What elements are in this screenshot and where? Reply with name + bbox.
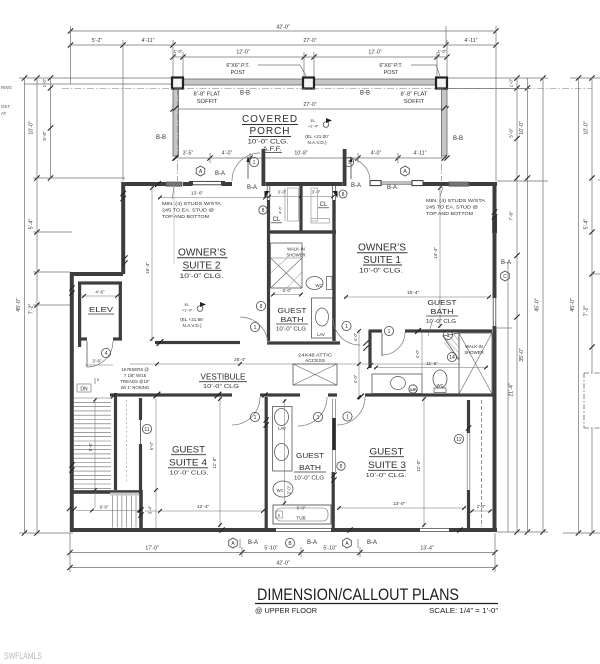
svg-text:4’-0”: 4’-0” xyxy=(222,151,233,157)
svg-text:B-A: B-A xyxy=(215,171,225,177)
svg-text:27’-0”: 27’-0” xyxy=(303,102,317,108)
svg-text:(EL +21.00’: (EL +21.00’ xyxy=(305,134,328,139)
svg-text:ELEV: ELEV xyxy=(89,307,113,314)
svg-text:8’-6”: 8’-6” xyxy=(88,442,93,451)
svg-text:TUB: TUB xyxy=(296,516,305,521)
svg-text:DIMENSION/CALLOUT PLANS: DIMENSION/CALLOUT PLANS xyxy=(257,586,459,604)
svg-text:1: 1 xyxy=(254,325,257,331)
svg-text:W/ 1” NOSING: W/ 1” NOSING xyxy=(121,385,150,390)
svg-text:WC: WC xyxy=(437,383,444,388)
svg-text:4’-0”: 4’-0” xyxy=(415,349,420,358)
svg-text:2’-0”: 2’-0” xyxy=(287,485,292,494)
svg-text:WALK-IN: WALK-IN xyxy=(465,344,483,349)
svg-text:SUITE 1: SUITE 1 xyxy=(363,254,401,266)
svg-text:B-B: B-B xyxy=(240,91,250,97)
svg-text:24X48 ATTIC: 24X48 ATTIC xyxy=(298,353,333,358)
svg-text:GUEST: GUEST xyxy=(370,447,404,458)
svg-text:14’-4”: 14’-4” xyxy=(433,247,438,259)
svg-text:2’-0”: 2’-0” xyxy=(477,504,486,509)
svg-text:POST: POST xyxy=(384,70,399,76)
svg-text:1’-0”: 1’-0” xyxy=(509,78,514,87)
svg-text:SUITE 2: SUITE 2 xyxy=(183,260,221,272)
svg-text:POST: POST xyxy=(231,70,246,76)
svg-text:SCALE: 1/4” = 1’-0”: SCALE: 1/4” = 1’-0” xyxy=(429,606,499,615)
svg-text:25’-4”: 25’-4” xyxy=(234,357,246,362)
svg-text:21’-4”: 21’-4” xyxy=(509,383,515,397)
svg-text:245 TO EA. STUD @: 245 TO EA. STUD @ xyxy=(426,205,478,211)
svg-text:10’-0” CLG.: 10’-0” CLG. xyxy=(366,473,408,479)
svg-text:13’-0”: 13’-0” xyxy=(393,501,406,507)
svg-text:6’-0”: 6’-0” xyxy=(100,505,109,510)
svg-text:14: 14 xyxy=(449,355,455,361)
svg-text:15 RISERS @: 15 RISERS @ xyxy=(121,367,149,372)
svg-text:17’-0”: 17’-0” xyxy=(145,546,159,552)
svg-text:N.A.V.D.): N.A.V.D.) xyxy=(308,140,327,145)
svg-text:A.F.F.: A.F.F. xyxy=(263,147,282,153)
svg-text:10’-0” CLG.: 10’-0” CLG. xyxy=(248,140,289,146)
svg-text:10’-0”: 10’-0” xyxy=(584,121,590,135)
svg-text:MIN. (4) STUDS W/STA: MIN. (4) STUDS W/STA xyxy=(162,201,222,207)
svg-text:B-B: B-B xyxy=(156,135,166,141)
svg-text:5’-0”: 5’-0” xyxy=(509,128,514,138)
svg-text:B-A: B-A xyxy=(501,260,511,266)
svg-text:6’-0”: 6’-0” xyxy=(149,441,154,450)
svg-text:4’-0”: 4’-0” xyxy=(353,332,358,341)
svg-text:B-B: B-B xyxy=(360,91,370,97)
svg-text:EL: EL xyxy=(311,118,317,123)
svg-text:1: 1 xyxy=(388,329,391,335)
svg-text:RING: RING xyxy=(1,85,13,90)
svg-text:245 TO EA. STUD @: 245 TO EA. STUD @ xyxy=(162,208,214,214)
svg-text:TREADS @10”: TREADS @10” xyxy=(120,379,150,384)
svg-text:10’-8”: 10’-8” xyxy=(294,151,308,157)
svg-text:13’-6”: 13’-6” xyxy=(191,191,204,197)
svg-text:1: 1 xyxy=(254,415,257,421)
svg-text:OWNER’S: OWNER’S xyxy=(178,247,226,259)
svg-text:8’-8” FLAT: 8’-8” FLAT xyxy=(401,92,428,98)
svg-text:GUEST: GUEST xyxy=(172,445,205,456)
svg-text:CL: CL xyxy=(273,217,281,223)
svg-text:6’-0”: 6’-0” xyxy=(297,506,306,511)
svg-text:7’-2”: 7’-2” xyxy=(584,306,590,317)
svg-text:6”X6” P.T.: 6”X6” P.T. xyxy=(379,63,402,69)
svg-text:1: 1 xyxy=(346,414,349,420)
svg-text:42’-0”: 42’-0” xyxy=(276,25,290,31)
svg-text:10’-0” CLG.: 10’-0” CLG. xyxy=(180,274,224,280)
svg-text:1: 1 xyxy=(317,415,320,421)
svg-text:3’-6”: 3’-6” xyxy=(92,359,102,364)
svg-text:4’-11”: 4’-11” xyxy=(465,38,478,44)
svg-text:10’-0” CLG: 10’-0” CLG xyxy=(294,476,324,482)
svg-text:4’-11”: 4’-11” xyxy=(414,151,427,157)
svg-text:8: 8 xyxy=(262,208,265,214)
svg-text:1’-0”: 1’-0” xyxy=(174,49,183,54)
svg-text:C: C xyxy=(503,274,507,280)
svg-text:DN: DN xyxy=(80,387,88,393)
svg-text:ACCESS: ACCESS xyxy=(305,358,325,363)
svg-text:SOFFIT: SOFFIT xyxy=(404,99,425,105)
svg-text:4’-0”: 4’-0” xyxy=(353,374,358,383)
svg-text:SHOWER: SHOWER xyxy=(286,253,305,258)
svg-text:5’-2”: 5’-2” xyxy=(92,38,103,44)
svg-text:12’-4”: 12’-4” xyxy=(197,504,210,510)
svg-text:12’-0”: 12’-0” xyxy=(236,50,250,56)
svg-text:7 1/8” W/15: 7 1/8” W/15 xyxy=(124,373,147,378)
svg-text:5’-10”: 5’-10” xyxy=(264,546,278,552)
svg-text:10’-0” CLG.: 10’-0” CLG. xyxy=(170,471,209,477)
svg-text:4’-0”: 4’-0” xyxy=(371,151,382,157)
svg-text:1’-0”: 1’-0” xyxy=(42,78,47,87)
svg-text:GUEST: GUEST xyxy=(296,453,325,460)
svg-text:35’-0”: 35’-0” xyxy=(519,348,525,362)
svg-text:10’-0”: 10’-0” xyxy=(29,121,35,135)
svg-text:11’-8”: 11’-8” xyxy=(426,361,438,366)
svg-text:B-A: B-A xyxy=(351,183,361,189)
svg-text:1’-0”: 1’-0” xyxy=(438,49,447,54)
svg-text:B-A: B-A xyxy=(367,540,377,546)
svg-text:1: 1 xyxy=(348,160,351,166)
svg-text:3’-0”: 3’-0” xyxy=(312,190,321,195)
svg-text:COVERED: COVERED xyxy=(242,113,298,125)
svg-text:OWNER’S: OWNER’S xyxy=(358,242,406,254)
svg-text:SOFFIT: SOFFIT xyxy=(197,99,218,105)
svg-text:10’-0”: 10’-0” xyxy=(519,121,525,135)
svg-text:6”X6” P.T.: 6”X6” P.T. xyxy=(226,63,249,69)
svg-text:10: 10 xyxy=(411,387,416,392)
svg-text:1: 1 xyxy=(447,333,450,339)
svg-text:1: 1 xyxy=(345,324,348,330)
svg-text:10’-0” CLG.: 10’-0” CLG. xyxy=(359,269,403,275)
svg-text:MIN. (4) STUDS W/STA: MIN. (4) STUDS W/STA xyxy=(426,198,486,204)
svg-text:4’-11”: 4’-11” xyxy=(142,38,155,44)
svg-text:OST: OST xyxy=(1,104,10,109)
svg-text:6: 6 xyxy=(278,514,280,518)
svg-text:B-A: B-A xyxy=(387,185,397,191)
svg-text:45’-0”: 45’-0” xyxy=(16,298,22,312)
svg-text:4: 4 xyxy=(105,351,108,357)
svg-text:6’-0”: 6’-0” xyxy=(283,288,292,293)
svg-text:VESTIBULE: VESTIBULE xyxy=(201,373,246,382)
svg-text:BATH: BATH xyxy=(299,465,321,472)
svg-text:EL: EL xyxy=(185,302,191,307)
svg-text:AT: AT xyxy=(1,111,7,116)
svg-text:B-A: B-A xyxy=(248,540,258,546)
svg-text:10’-0” CLG: 10’-0” CLG xyxy=(276,327,306,333)
svg-text:LAV: LAV xyxy=(317,332,325,337)
svg-text:B-B: B-B xyxy=(453,136,463,142)
svg-text:B-A: B-A xyxy=(307,540,317,546)
svg-text:+1’-4”: +1’-4” xyxy=(182,308,193,313)
svg-text:PORCH: PORCH xyxy=(250,125,291,137)
svg-text:3’-5”: 3’-5” xyxy=(183,151,194,157)
svg-text:WC: WC xyxy=(277,488,284,493)
svg-text:WC: WC xyxy=(315,283,322,288)
svg-text:5’-10”: 5’-10” xyxy=(323,546,337,552)
svg-text:WALK-IN: WALK-IN xyxy=(287,247,305,252)
svg-text:TOP AND BOTTOM: TOP AND BOTTOM xyxy=(426,211,473,217)
svg-text:SWFLAMLS: SWFLAMLS xyxy=(4,651,42,662)
svg-text:5’-4”: 5’-4” xyxy=(584,219,590,230)
svg-text:27’-0”: 27’-0” xyxy=(303,38,317,44)
svg-text:12’-0”: 12’-0” xyxy=(416,460,421,472)
svg-text:10’-0” CLG: 10’-0” CLG xyxy=(203,384,239,390)
svg-text:BATH: BATH xyxy=(281,317,304,324)
svg-text:SHOWER: SHOWER xyxy=(464,350,483,355)
svg-text:SUITE 4: SUITE 4 xyxy=(169,458,207,469)
svg-text:1: 1 xyxy=(253,160,256,166)
svg-text:7’-8”: 7’-8” xyxy=(509,211,514,221)
svg-text:42’-0”: 42’-0” xyxy=(276,561,290,567)
svg-text:5’-4”: 5’-4” xyxy=(29,219,35,230)
svg-text:5’-0”: 5’-0” xyxy=(42,131,47,141)
svg-text:8: 8 xyxy=(260,304,263,310)
svg-text:BATH: BATH xyxy=(431,309,454,316)
svg-text:N.A.V.D.): N.A.V.D.) xyxy=(183,323,202,328)
svg-text:4’-6”: 4’-6” xyxy=(278,205,283,214)
svg-text:8: 8 xyxy=(342,192,345,198)
svg-text:GUEST: GUEST xyxy=(278,308,308,315)
svg-text:+1’-4”: +1’-4” xyxy=(308,124,319,129)
svg-text:8: 8 xyxy=(340,464,343,470)
svg-text:45’-0”: 45’-0” xyxy=(535,298,541,312)
svg-text:15’-4”: 15’-4” xyxy=(407,290,420,296)
svg-text:CL: CL xyxy=(320,202,328,208)
svg-text:3’-4”: 3’-4” xyxy=(148,505,153,514)
svg-text:4’-6”: 4’-6” xyxy=(95,290,105,295)
svg-text:12: 12 xyxy=(456,437,462,443)
svg-text:@ UPPER FLOOR: @ UPPER FLOOR xyxy=(255,608,317,615)
svg-text:3’-0”: 3’-0” xyxy=(278,190,287,195)
svg-text:GUEST: GUEST xyxy=(428,300,458,307)
svg-text:TOP AND BOTTOM: TOP AND BOTTOM xyxy=(162,214,209,220)
svg-text:B-A: B-A xyxy=(247,185,257,191)
svg-text:15’-4”: 15’-4” xyxy=(145,262,150,274)
svg-text:12’-0”: 12’-0” xyxy=(368,50,382,56)
svg-text:SUITE 3: SUITE 3 xyxy=(368,460,406,471)
svg-text:10’-0” CLG: 10’-0” CLG xyxy=(426,319,456,325)
svg-text:13’-4”: 13’-4” xyxy=(420,546,434,552)
svg-text:12’-0”: 12’-0” xyxy=(212,457,217,469)
svg-text:8’-8” FLAT: 8’-8” FLAT xyxy=(194,92,221,98)
svg-text:LAV: LAV xyxy=(278,426,286,431)
svg-text:(EL +21.66’: (EL +21.66’ xyxy=(180,317,203,322)
svg-text:11: 11 xyxy=(144,427,149,433)
svg-text:45’-0”: 45’-0” xyxy=(570,298,576,312)
